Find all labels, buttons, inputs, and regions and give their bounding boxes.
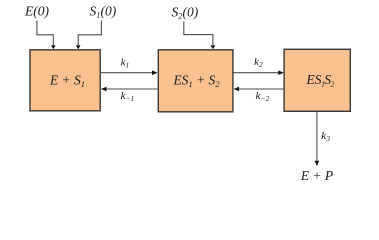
- svg-text:k−1: k−1: [121, 90, 135, 103]
- svg-text:E + P: E + P: [300, 168, 333, 183]
- label S2(0): [172, 4, 199, 20]
- arrow k2 (ES1+S2 to ES1S2): [234, 70, 284, 75]
- label k2: [254, 56, 263, 69]
- label k-1: [121, 90, 135, 103]
- label k-2: [256, 90, 270, 103]
- box ES1 + S2: [158, 50, 233, 112]
- svg-text:k3: k3: [321, 130, 330, 143]
- svg-text:k2: k2: [254, 56, 263, 69]
- arrow k1 (E+S1 to ES1+S2): [101, 70, 158, 75]
- label E + P: [300, 168, 333, 183]
- box E + S1: [30, 50, 100, 111]
- box ES1S2: [284, 49, 350, 111]
- svg-text:k−2: k−2: [256, 90, 270, 103]
- svg-text:ES1 + S2: ES1 + S2: [172, 73, 220, 89]
- arrow k-1 (ES1+S2 to E+S1): [101, 87, 158, 92]
- label S1(0): [90, 3, 117, 19]
- arrow k-2 (ES1S2 to ES1+S2): [234, 87, 285, 92]
- svg-text:S2(0): S2(0): [172, 4, 199, 20]
- svg-text:k1: k1: [121, 56, 130, 69]
- svg-text:E(0): E(0): [24, 3, 49, 18]
- svg-text:E + S1: E + S1: [49, 73, 85, 89]
- arrow S1(0) into box E+S1: [76, 21, 102, 50]
- label k1: [121, 56, 130, 69]
- arrow E(0) into box E+S1: [37, 21, 56, 50]
- label E(0): [24, 3, 49, 18]
- arrow S2(0) into box ES1+S2: [184, 22, 215, 50]
- svg-text:ES1S2: ES1S2: [306, 72, 335, 88]
- svg-text:S1(0): S1(0): [90, 3, 117, 19]
- label k3: [321, 130, 330, 143]
- arrow k3 (ES1S2 down to E+P): [315, 112, 320, 166]
